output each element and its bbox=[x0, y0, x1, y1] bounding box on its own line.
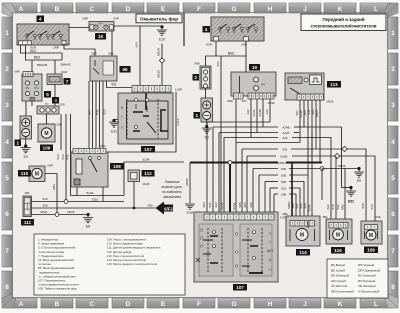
svg-text:B: B bbox=[55, 301, 60, 308]
wire 510 bbox=[56, 114, 61, 160]
svg-text:D: D bbox=[126, 301, 131, 308]
bus S08 bbox=[274, 192, 296, 221]
wire M52 into 115 bbox=[344, 169, 346, 224]
wire A24B from 19 bbox=[258, 99, 263, 127]
tag 108 bbox=[110, 163, 124, 170]
wire 513 bbox=[61, 114, 66, 202]
wire sensor 112 to lamp wire bbox=[133, 182, 136, 210]
wire BMA1B bbox=[32, 60, 47, 72]
tag 4 (right) bbox=[203, 26, 211, 33]
connector 2 bbox=[194, 62, 211, 90]
bus S01 bbox=[270, 186, 300, 221]
pin labels above motor 114 bbox=[291, 203, 311, 212]
bus 501 bbox=[242, 147, 366, 226]
rear wiper motor 115 bbox=[322, 215, 352, 244]
component legend box bbox=[34, 234, 185, 295]
wire BF7 bbox=[87, 81, 92, 148]
tag 109 (right) bbox=[364, 247, 378, 254]
ignition switch 5 bbox=[14, 70, 42, 102]
bus M501 (thick) bbox=[190, 161, 322, 221]
wire V31A bbox=[108, 92, 180, 152]
ground E10 bbox=[157, 25, 167, 41]
wire from timer 108 to 510A bbox=[76, 187, 78, 196]
bus A24A bbox=[219, 131, 299, 215]
svg-text:3: 3 bbox=[5, 102, 9, 109]
tag 19 bbox=[249, 64, 260, 71]
tag 112 bbox=[142, 170, 155, 177]
title box: Омыватель фар bbox=[136, 14, 182, 23]
fuse 7 bbox=[47, 70, 67, 85]
wire S42 bbox=[66, 114, 71, 196]
wire fuse 7 to strip P7 bbox=[54, 85, 56, 107]
pin labels above motor 115 bbox=[331, 204, 344, 210]
bus A24B bbox=[213, 125, 342, 215]
svg-text:D: D bbox=[126, 6, 131, 13]
wire S05 from 113 bbox=[303, 100, 308, 221]
wire A24A into 114 bbox=[311, 133, 313, 222]
svg-text:2: 2 bbox=[391, 66, 395, 73]
svg-text:A: A bbox=[19, 301, 24, 308]
svg-text:G: G bbox=[231, 6, 236, 13]
svg-text:J: J bbox=[303, 6, 307, 13]
wire S30 bbox=[88, 81, 90, 148]
wire connector 2 top bbox=[206, 56, 217, 66]
junction on wire S110 bbox=[64, 200, 68, 204]
svg-text:K: K bbox=[338, 6, 343, 13]
svg-text:E: E bbox=[161, 301, 166, 308]
tag 111 bbox=[21, 219, 34, 226]
pointer arrow 6/F2 bbox=[156, 202, 174, 215]
tag 110 bbox=[18, 170, 31, 177]
svg-text:6: 6 bbox=[5, 211, 9, 218]
svg-text:L: L bbox=[374, 301, 378, 308]
connector diamond on wire M030 bbox=[159, 58, 164, 63]
tag 2 bbox=[193, 74, 200, 81]
multifunction switch 66 bbox=[90, 52, 117, 81]
wire pump 109 to strip P7 bbox=[46, 114, 48, 124]
tag 4 bbox=[37, 16, 45, 23]
ground E9 bbox=[322, 164, 364, 183]
svg-text:H: H bbox=[268, 6, 273, 13]
pin labels above switch 107 bbox=[202, 202, 253, 210]
wire AA1 bbox=[21, 45, 63, 61]
wire from timer 108 to S110 bbox=[102, 187, 104, 202]
tag 7 bbox=[64, 78, 71, 85]
svg-text:1: 1 bbox=[391, 30, 395, 37]
headlight washer pump 109 bbox=[38, 123, 62, 143]
wire 2NR to switch 66 bbox=[64, 45, 95, 57]
label M026 bbox=[327, 100, 334, 104]
ground E0 (right) bbox=[202, 120, 212, 140]
tag 107 (left) bbox=[141, 146, 155, 153]
svg-text:B: B bbox=[55, 6, 60, 13]
svg-text:5: 5 bbox=[391, 175, 395, 182]
wire M02N / M030 vertical bbox=[157, 44, 162, 87]
ground E8 bbox=[83, 213, 93, 229]
fuse box 4 (right section) bbox=[206, 17, 264, 47]
connector strip P7 bbox=[37, 102, 65, 114]
svg-text:C: C bbox=[90, 301, 95, 308]
wire ignition 5 to battery bbox=[25, 101, 27, 116]
svg-text:4: 4 bbox=[391, 139, 395, 146]
ground E11 bbox=[109, 119, 119, 134]
wiper motor 114 bbox=[282, 212, 320, 246]
connector 16 bbox=[82, 17, 119, 32]
svg-text:1: 1 bbox=[5, 30, 9, 37]
wire A24A from 19 bbox=[252, 99, 257, 133]
tag 109 bbox=[40, 145, 53, 152]
battery 1 (right) bbox=[201, 98, 213, 122]
wire S11 from 113 bbox=[307, 100, 312, 156]
wire S05 into 114 bbox=[307, 221, 309, 228]
svg-text:2: 2 bbox=[5, 66, 9, 73]
tag 1 (battery) bbox=[15, 140, 22, 147]
svg-text:K: K bbox=[338, 301, 343, 308]
tag 66 bbox=[120, 66, 131, 73]
bus A24 bbox=[207, 122, 270, 215]
washer pump 109 (right) bbox=[361, 215, 382, 244]
connector diamond on 530 bbox=[342, 146, 347, 151]
fluid level sensor connector 111 bbox=[23, 191, 32, 217]
svg-text:6: 6 bbox=[391, 211, 395, 218]
bus S05 bbox=[259, 173, 308, 215]
wire colour legend box bbox=[327, 259, 388, 298]
wiper relay 113 bbox=[285, 73, 324, 100]
tag 1 (right battery) bbox=[194, 112, 201, 119]
svg-text:H: H bbox=[268, 301, 273, 308]
bus A22 bbox=[224, 136, 331, 223]
svg-text:8: 8 bbox=[5, 284, 9, 291]
wire M50Y down bbox=[321, 169, 323, 201]
wire AA1 long vertical bbox=[216, 56, 221, 215]
tag 107 (right) bbox=[233, 284, 247, 291]
wire 510A lower bbox=[71, 191, 125, 196]
headlight washer timer 108 bbox=[71, 144, 108, 187]
wire M511 / M02K bbox=[32, 210, 89, 214]
wire BM1 bbox=[26, 45, 63, 61]
relay plate 19 bbox=[227, 72, 276, 105]
svg-text:A: A bbox=[19, 6, 24, 13]
wire S15 bbox=[99, 81, 101, 148]
tag 16 bbox=[95, 33, 106, 40]
wire A22 from 19 bbox=[246, 99, 251, 138]
wire fuse box to connector 16 bbox=[69, 27, 89, 29]
ground E52 bbox=[342, 186, 357, 204]
bus S26 bbox=[265, 180, 304, 221]
svg-text:G: G bbox=[231, 301, 236, 308]
junction on wire M511 bbox=[55, 213, 59, 217]
wire P43 bbox=[96, 81, 100, 148]
wire BMA42 bbox=[55, 60, 71, 74]
wire connector 16 to node E10 bbox=[114, 25, 162, 27]
tag 6 bbox=[52, 97, 59, 104]
wire S70 into 115 bbox=[335, 156, 337, 223]
bus S07 upper bbox=[236, 143, 300, 216]
svg-text:F: F bbox=[197, 301, 201, 308]
svg-text:J: J bbox=[303, 301, 307, 308]
svg-text:7: 7 bbox=[391, 248, 395, 255]
wire 518 / S110 bbox=[32, 197, 125, 202]
washer pump 110 bbox=[29, 164, 53, 182]
connector diamond on 518A bbox=[334, 153, 339, 158]
wire from 19 left strip bbox=[235, 99, 237, 143]
wire M511 from pump 110 bbox=[45, 174, 57, 215]
svg-text:3: 3 bbox=[391, 102, 395, 109]
tag 5 bbox=[44, 91, 51, 98]
wire connector 2 to battery bbox=[205, 89, 207, 98]
junction on S02 bbox=[320, 167, 324, 171]
fluid sensor 112 bbox=[128, 170, 149, 186]
ground E10 (mid) bbox=[185, 163, 195, 216]
junction on M501 bbox=[228, 161, 232, 165]
wire 510A upper bbox=[124, 158, 184, 196]
svg-text:7: 7 bbox=[5, 248, 9, 255]
wire A24 vertical bbox=[135, 26, 140, 86]
wiper switch 107 (right) bbox=[194, 212, 287, 282]
bus 518A bbox=[247, 154, 375, 226]
wire BM1 (right) bbox=[216, 41, 246, 72]
wire S07 from 113 bbox=[295, 100, 300, 143]
tag 115 bbox=[331, 247, 345, 254]
tag 113 bbox=[327, 81, 341, 88]
svg-text:4: 4 bbox=[5, 139, 9, 146]
wire ignition 5 to strip P7 bbox=[31, 101, 33, 106]
wire 531 to switch 107 bbox=[107, 81, 133, 88]
wire A24B from 113 bbox=[299, 100, 304, 127]
wire M50Y from 113 bbox=[315, 100, 320, 163]
wire S03 from 113 bbox=[311, 100, 316, 149]
wire 409 to low-level lamp bbox=[32, 204, 156, 208]
svg-text:8: 8 bbox=[391, 284, 395, 291]
bus S02 bbox=[253, 167, 322, 215]
note: low washer fluid lamp bbox=[161, 180, 183, 199]
svg-text:F: F bbox=[197, 6, 201, 13]
tag 114 bbox=[296, 249, 310, 256]
wire A24 from 19 bbox=[265, 99, 270, 122]
washer switch 107 bbox=[118, 86, 182, 145]
svg-text:5: 5 bbox=[5, 175, 9, 182]
svg-text:E: E bbox=[161, 6, 166, 13]
ground E0 bbox=[21, 137, 31, 160]
section divider line bbox=[183, 13, 185, 46]
fuse box 4 (engine bay fuse/relay unit) bbox=[17, 24, 69, 50]
title box: Передний и задний стеклоомыватели/очистители bbox=[301, 14, 386, 31]
svg-text:L: L bbox=[374, 6, 378, 13]
svg-text:C: C bbox=[90, 6, 95, 13]
wire 30R to switch 66 bbox=[111, 31, 113, 56]
battery 1 bbox=[20, 116, 32, 139]
wire 515 bbox=[103, 81, 107, 148]
